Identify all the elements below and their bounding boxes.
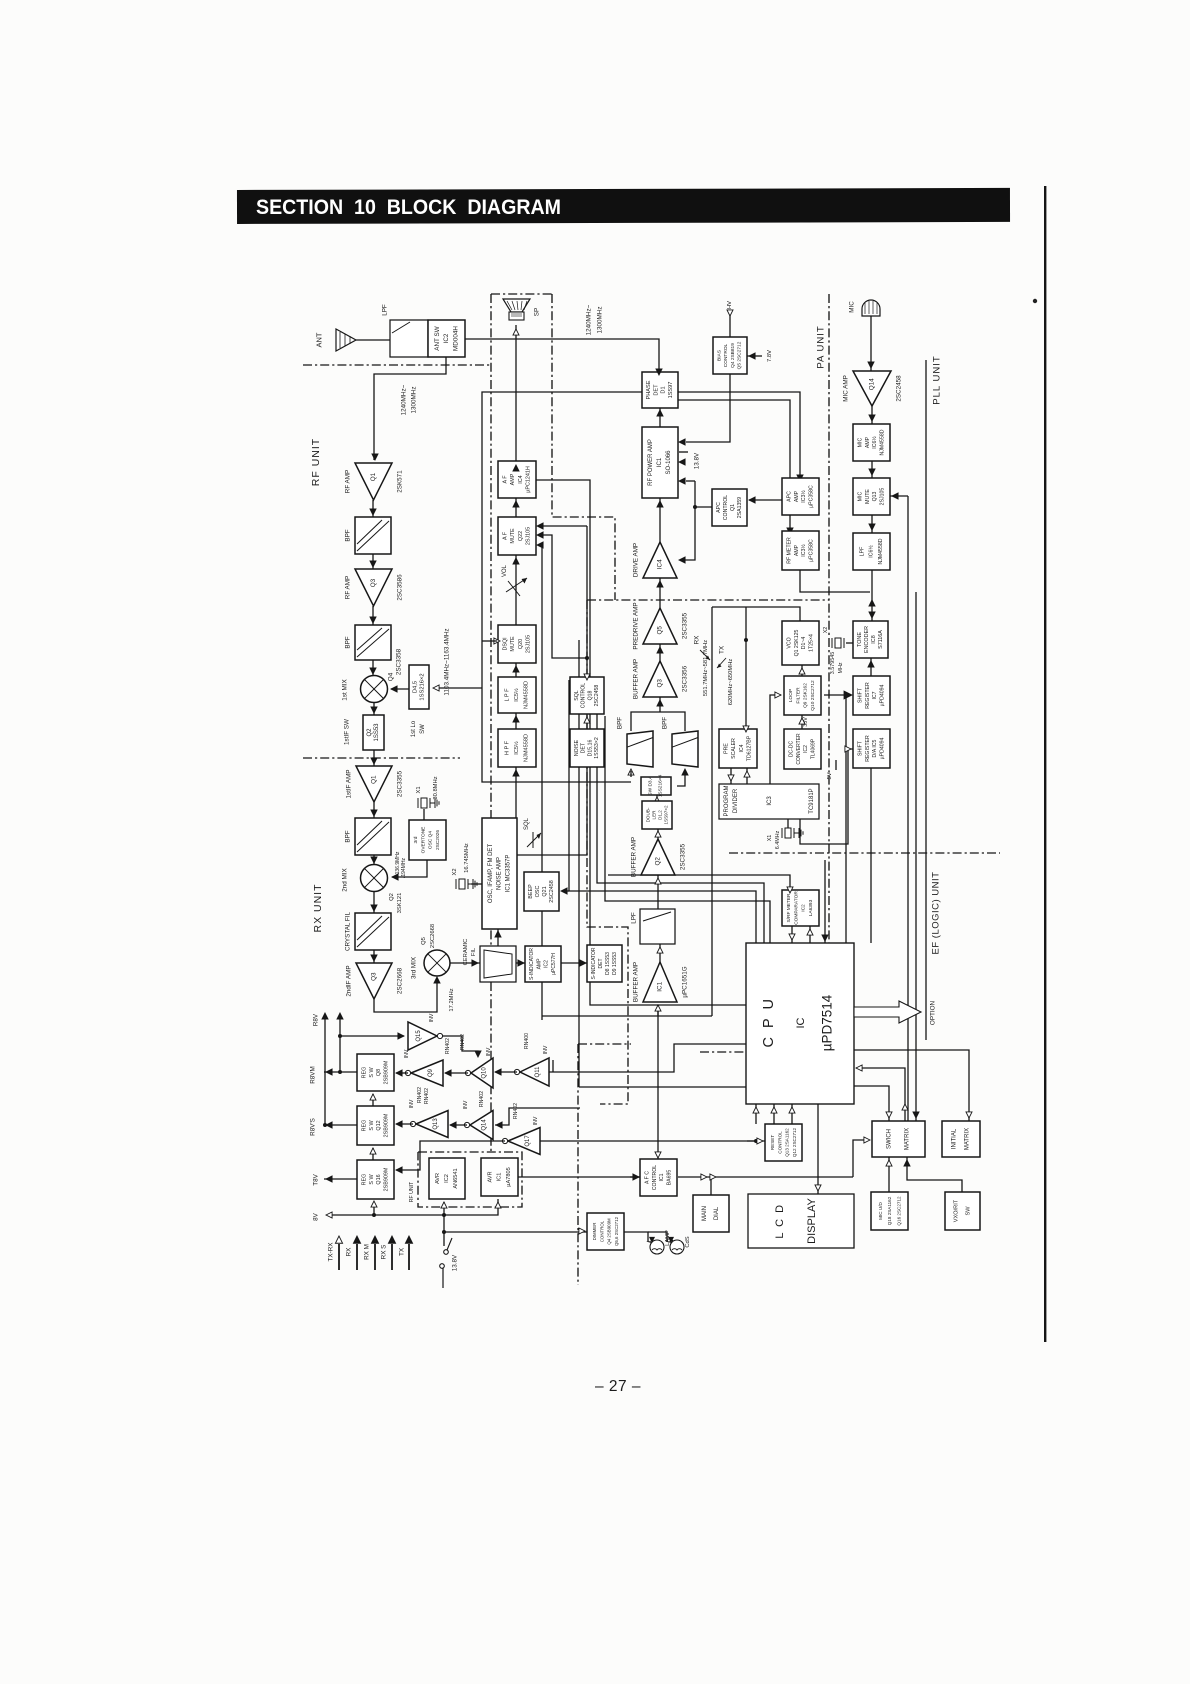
- svg-text:SW: SW: [420, 724, 426, 734]
- svg-text:Q13: Q13: [433, 1118, 439, 1130]
- svg-text:MUTE: MUTE: [510, 636, 516, 652]
- arrow LPF in: [513, 716, 519, 722]
- svg-text:H P F: H P F: [505, 740, 511, 755]
- svg-text:SWICH: SWICH: [887, 1129, 893, 1149]
- arrow into xtal fil: [371, 905, 377, 911]
- svg-text:BPF: BPF: [617, 717, 624, 729]
- svg-text:CONVERTER: CONVERTER: [796, 733, 802, 765]
- regulator AVR IC2 AN6541: [429, 1158, 465, 1199]
- svg-text:SCALER: SCALER: [731, 738, 737, 759]
- svg-text:MUTE: MUTE: [865, 489, 871, 504]
- wire RX LO bus 1103MHz: [482, 392, 642, 782]
- amp APC AMP IC3 uPC358C: [782, 478, 819, 515]
- amp S-INDICATOR AMP IC2 uPC577H: [525, 946, 561, 982]
- filter BPF tx a: [627, 731, 653, 767]
- TX RX boundary horizontal: [587, 599, 829, 601]
- arrow into doubler: [655, 831, 661, 837]
- svg-text:C P U: C P U: [761, 997, 777, 1048]
- arrow T8V: [326, 1176, 332, 1182]
- arrow R8V b: [337, 1013, 343, 1019]
- arrow reg q16 supply: [371, 1201, 377, 1207]
- svg-text:IC8: IC8: [871, 635, 877, 643]
- amp MIC AMP IC6 NJM4558D: [853, 424, 890, 461]
- wire buffer1 feed stub: [657, 1005, 659, 1016]
- wire HV to bias: [729, 312, 731, 337]
- svg-text:µPC1651G: µPC1651G: [682, 966, 689, 997]
- svg-text:Q9 2SK162: Q9 2SK162: [803, 683, 809, 708]
- arrow HPF in: [513, 770, 519, 776]
- arrow into PA: [657, 501, 663, 507]
- wire q9 out: [396, 1072, 408, 1074]
- wire doubler to sw: [656, 795, 658, 801]
- svg-text:BIAS: BIAS: [716, 350, 722, 361]
- svg-text:µPC1241H: µPC1241H: [525, 466, 531, 493]
- svg-text:Q1: Q1: [371, 775, 378, 784]
- wire xtal fil to Q3if: [373, 950, 375, 963]
- wire dimmer feed: [444, 1231, 587, 1233]
- svg-text:D9 1SS53: D9 1SS53: [612, 952, 618, 975]
- svg-text:AVR: AVR: [487, 1171, 493, 1182]
- arrow shift to tone: [868, 661, 874, 667]
- wire AF line riser: [535, 480, 746, 1005]
- wire dimmer to cds: [648, 1232, 667, 1242]
- svg-text:Q22: Q22: [518, 531, 524, 541]
- svg-text:IC6½: IC6½: [868, 545, 875, 558]
- lamp LAMP: [650, 1240, 664, 1254]
- power arrow RX: [356, 1244, 358, 1270]
- wire sw to bpfb: [677, 771, 685, 786]
- wire apc to PA: [686, 480, 695, 482]
- wire Q3if to 3rd mix: [374, 978, 437, 1012]
- wire inverter bus y1072: [549, 1044, 746, 1072]
- arrow into predrive: [657, 647, 663, 653]
- inverter Q13: [416, 1111, 448, 1138]
- svg-text:Q15: Q15: [416, 1030, 422, 1042]
- wire VCO bus vertical: [711, 607, 713, 1016]
- svg-text:INV: INV: [543, 1045, 549, 1054]
- wire comp to cpu a: [791, 926, 793, 943]
- arrow apc into drive: [679, 557, 685, 563]
- svg-text:X1: X1: [416, 786, 422, 793]
- wire q11 out: [495, 1071, 517, 1073]
- junction 13.8V b: [442, 1230, 446, 1234]
- wire bus to DSQL: [482, 640, 497, 642]
- svg-text:MAIN: MAIN: [702, 1206, 708, 1221]
- svg-text:TL4069P: TL4069P: [811, 738, 817, 759]
- wire comp to cpu b: [809, 926, 811, 943]
- filter BPF tx b: [672, 731, 698, 767]
- svg-text:13.8V: 13.8V: [452, 1254, 459, 1271]
- svg-text:MATRIX: MATRIX: [904, 1128, 910, 1150]
- svg-text:BUFFER AMP: BUFFER AMP: [631, 837, 638, 877]
- svg-text:AMP: AMP: [536, 958, 542, 970]
- svg-text:2SJ105: 2SJ105: [525, 635, 531, 653]
- svg-text:OSC Q4: OSC Q4: [428, 831, 434, 849]
- amp RF POWER AMP IC1 SO-1066: [642, 427, 678, 498]
- svg-text:Q14: Q14: [869, 378, 876, 390]
- wire reset in: [747, 1140, 765, 1142]
- svg-text:1103.4MHz~1163.4MHz: 1103.4MHz~1163.4MHz: [444, 628, 451, 695]
- arrow comp cpu b: [807, 929, 813, 935]
- wire 7.8V to bias: [747, 355, 762, 357]
- wire xtal to tone: [846, 642, 853, 644]
- svg-text:Q10 2SC2712: Q10 2SC2712: [810, 680, 816, 711]
- PA unit boundary: [828, 294, 830, 973]
- svg-text:D/A IC5: D/A IC5: [872, 739, 878, 757]
- wire mic mute to lpf: [871, 515, 873, 533]
- svg-text:RX: RX: [346, 1247, 353, 1257]
- svg-text:MATRIX: MATRIX: [964, 1128, 970, 1150]
- svg-text:2SC2668: 2SC2668: [430, 924, 436, 948]
- arrow into speaker: [513, 329, 519, 335]
- wire CPU top feed c: [578, 640, 580, 1087]
- svg-text:X2: X2: [823, 627, 829, 634]
- svg-text:µPD4094: µPD4094: [880, 685, 886, 707]
- arrow into bpf a: [628, 769, 634, 775]
- arrow AF amp out: [513, 465, 519, 471]
- wire x1 to divider: [787, 819, 789, 828]
- wire buffer1 to lpf: [659, 944, 661, 962]
- wire q15 in: [340, 1035, 404, 1037]
- svg-text:Q18: Q18: [587, 690, 593, 700]
- arrow D45 into mixer: [391, 686, 397, 692]
- control RESET CONTROL Q13 Q12: [765, 1124, 802, 1161]
- svg-text:SW: SW: [965, 1206, 971, 1216]
- svg-text:TONE: TONE: [857, 632, 863, 647]
- svg-text:BA695: BA695: [667, 1170, 673, 1186]
- svg-text:SQL: SQL: [524, 817, 530, 830]
- svg-text:EF (LOGIC) UNIT: EF (LOGIC) UNIT: [931, 872, 942, 955]
- filter CRYSTAL FIL: [355, 913, 391, 950]
- svg-text:RN402: RN402: [445, 1038, 451, 1054]
- wire merge up: [659, 697, 661, 712]
- svg-text:IC2: IC2: [803, 745, 809, 753]
- wire cpu to swich matrix: [854, 1086, 889, 1121]
- svg-text:TX-RX: TX-RX: [328, 1242, 335, 1262]
- wire 3rd mix to ceramic: [450, 962, 480, 964]
- svg-text:1SS53×2: 1SS53×2: [594, 737, 600, 759]
- svg-text:1stIF AMP: 1stIF AMP: [346, 769, 353, 798]
- svg-text:Q9: Q9: [428, 1068, 434, 1077]
- wire mic amp to ic6: [871, 406, 873, 424]
- arrow into shift reg: [844, 691, 852, 699]
- arrow into swich left: [864, 1137, 870, 1143]
- amp RF AMP Q1 2SK571: [355, 463, 392, 500]
- svg-text:BUFFER AMP: BUFFER AMP: [633, 659, 640, 699]
- junction sql riser: [585, 656, 589, 660]
- crystal X1 6.4MHz: [785, 828, 791, 838]
- wire mix to 1stIF SW: [373, 703, 375, 715]
- svg-text:CONTROL: CONTROL: [723, 495, 729, 520]
- svg-text:MD004H: MD004H: [452, 326, 459, 351]
- arrow into lamp: [650, 1237, 655, 1242]
- svg-text:IC: IC: [795, 1017, 807, 1028]
- svg-text:RF METER: RF METER: [786, 537, 792, 564]
- svg-text:IC1: IC1: [497, 1173, 503, 1182]
- wire osc to 2nd mix: [392, 876, 409, 878]
- wire X1 to overtone osc: [423, 809, 425, 820]
- arrow dial bus: [701, 1174, 707, 1180]
- wire pll right bus 3: [925, 360, 927, 1040]
- svg-text:Q4 2SB909M: Q4 2SB909M: [607, 1218, 612, 1245]
- svg-text:D8 1SS53: D8 1SS53: [605, 952, 611, 975]
- wire q11 tail: [552, 1060, 554, 1072]
- svg-text:IC2: IC2: [443, 333, 450, 343]
- diode switch D4 D5 1SS216x2: [409, 665, 429, 709]
- microphone MIC: [862, 300, 880, 316]
- svg-text:SP: SP: [534, 308, 541, 316]
- inverter Q9: [411, 1060, 443, 1086]
- crystal X1 30.8MHz: [421, 798, 427, 808]
- filter BPF 3: [355, 818, 391, 855]
- power arrow RX M: [374, 1244, 376, 1270]
- svg-text:IC7: IC7: [872, 691, 878, 699]
- wire afc left stub: [630, 1176, 640, 1178]
- arrow into mic lpf: [869, 524, 875, 530]
- svg-text:PA UNIT: PA UNIT: [816, 325, 827, 368]
- amp 1stIF AMP Q1 2SC3355: [356, 766, 392, 802]
- svg-text:16.745MHz: 16.745MHz: [464, 843, 470, 873]
- svg-text:RN402: RN402: [424, 1088, 430, 1104]
- wire afc riser: [657, 1005, 659, 1159]
- wire predrive to drive: [659, 578, 661, 608]
- arrow into Q1: [372, 454, 378, 460]
- arrow into MC3357P: [495, 931, 501, 937]
- wire lpf to tone enc: [871, 570, 873, 621]
- arrow into initial matrix: [966, 1112, 972, 1118]
- svg-text:PROGRAM: PROGRAM: [724, 785, 730, 816]
- wire buffer3 to predrive: [659, 644, 661, 661]
- svg-text:INV: INV: [404, 1049, 410, 1058]
- wire reg q8 out: [324, 1071, 357, 1073]
- wire q16 to q12: [372, 1148, 374, 1160]
- svg-text:FIL: FIL: [471, 947, 477, 956]
- svg-text:REGISTER: REGISTER: [865, 682, 871, 709]
- svg-text:2SA1359: 2SA1359: [737, 497, 743, 518]
- arrow q12 to q8: [370, 1094, 376, 1100]
- switch ANT SW IC2 MD004H: [428, 320, 465, 357]
- svg-text:D15,16: D15,16: [587, 740, 593, 757]
- svg-text:REGISTER: REGISTER: [865, 735, 871, 762]
- arrow comp top: [787, 887, 793, 893]
- register SHIFT REGISTER D/A IC5: [853, 729, 890, 768]
- wire CPU feed d: [605, 716, 770, 943]
- oscillator OVERTONE OSC Q4 2SC2026: [409, 820, 446, 860]
- svg-text:8V: 8V: [313, 1212, 320, 1221]
- svg-text:SECTION 10 BLOCK DIAGRAM: SECTION 10 BLOCK DIAGRAM: [256, 196, 561, 219]
- mixer 1st MIX Q4 2SC3358: [361, 676, 388, 703]
- svg-text:LPF: LPF: [859, 547, 865, 557]
- svg-text:RX S: RX S: [381, 1245, 388, 1260]
- svg-text:COMPARATOR: COMPARATOR: [793, 891, 799, 925]
- EF unit boundary horizontal: [578, 1043, 631, 1045]
- svg-text:2SC3586: 2SC3586: [397, 574, 404, 601]
- arrow into buffer2: [655, 878, 661, 884]
- wire BPF2 to 1st mix: [372, 660, 374, 676]
- svg-text:S W: S W: [369, 1120, 375, 1131]
- svg-text:MIC: MIC: [857, 491, 863, 501]
- svg-text:REG: REG: [361, 1174, 367, 1186]
- wire q17 out: [396, 1141, 505, 1170]
- wire VCO top link: [712, 607, 800, 621]
- svg-text:1300MHz: 1300MHz: [597, 307, 604, 334]
- svg-text:IC6½: IC6½: [871, 436, 878, 449]
- arrow into ceramic fil: [472, 960, 478, 966]
- potentiometer VOL: [506, 578, 527, 592]
- oscillator BEEP OSC Q21 2SC2458: [524, 872, 559, 911]
- arrow 13.8V c: [679, 478, 685, 484]
- svg-text:1SS216×2: 1SS216×2: [419, 673, 425, 700]
- mute MIC MUTE Q13 2SJ105: [853, 478, 890, 515]
- svg-text:2SJ105: 2SJ105: [880, 488, 886, 506]
- arrow q9 to reg: [396, 1070, 402, 1076]
- svg-text:APC: APC: [786, 491, 792, 502]
- svg-text:S W: S W: [369, 1174, 375, 1185]
- switch 1st IF SW Q2 1SS53: [363, 715, 384, 750]
- wire mic to mic amp: [870, 316, 872, 371]
- wire D45 to mixer: [391, 688, 409, 690]
- arrow into 3rd mix: [434, 977, 440, 983]
- arrow TX tap pointer: [717, 658, 726, 668]
- wire reset c: [791, 1104, 793, 1124]
- svg-text:SHIFT: SHIFT: [857, 740, 863, 756]
- arrow noise det up: [584, 717, 590, 723]
- svg-text:1stIF SW: 1stIF SW: [344, 719, 351, 745]
- wire X2 to IC1: [471, 883, 482, 885]
- svg-text:Q18 2SA1162: Q18 2SA1162: [887, 1196, 892, 1225]
- svg-text:IC2: IC2: [544, 960, 550, 968]
- svg-text:µPD4094: µPD4094: [880, 738, 886, 760]
- svg-text:DRIVE AMP: DRIVE AMP: [633, 543, 640, 577]
- regulator REG S W Q12 2SB909M: [357, 1106, 394, 1145]
- dial MAIN DIAL: [693, 1195, 729, 1232]
- svg-text:CONTROL: CONTROL: [581, 683, 587, 708]
- svg-text:2SC2026: 2SC2026: [435, 830, 441, 850]
- svg-text:IC1: IC1: [659, 1173, 665, 1181]
- svg-text:Q16: Q16: [376, 1174, 382, 1184]
- svg-text:AN6541: AN6541: [453, 1168, 459, 1188]
- arrow pa to pd: [657, 410, 663, 416]
- arrow into buffer1: [655, 1005, 661, 1011]
- junction q15 feed: [338, 1034, 342, 1038]
- svg-text:Q1 2SK125: Q1 2SK125: [794, 629, 800, 656]
- junction apc: [693, 505, 697, 509]
- svg-text:LOOP: LOOP: [788, 689, 794, 702]
- junction vco bus: [744, 638, 748, 642]
- wire 8V rail: [328, 1214, 444, 1216]
- RF unit top boundary: [303, 364, 491, 366]
- arrowhead TX: [405, 1236, 412, 1243]
- svg-text:BPF: BPF: [345, 529, 352, 541]
- arrow q15 to q10: [475, 1051, 481, 1057]
- arrow mic mute ctl: [892, 493, 898, 499]
- arrow into phase det: [656, 369, 662, 375]
- ink speck: [1033, 299, 1037, 303]
- detector NOISE DET D15 D16: [570, 729, 604, 767]
- arrow into Q3 buffer: [657, 700, 663, 706]
- svg-text:DOUB-: DOUB-: [646, 807, 651, 822]
- arrow into rf meter: [787, 528, 793, 534]
- svg-text:VCO: VCO: [786, 637, 792, 648]
- prescaler PRE SCALER IC4 TD6127BP: [719, 729, 757, 768]
- svg-text:2SC2458: 2SC2458: [896, 375, 903, 402]
- wire sw to bpfa: [630, 771, 632, 777]
- wire dimmer to lamp: [624, 1232, 648, 1242]
- svg-text:IC4: IC4: [657, 559, 664, 569]
- svg-text:S7116A: S7116A: [878, 630, 884, 649]
- wire swich to cpu: [856, 1068, 905, 1121]
- arrow into beep osc: [561, 888, 567, 894]
- matrix SWICH MATRIX: [872, 1121, 925, 1157]
- svg-text:3rd: 3rd: [413, 836, 419, 843]
- svg-text:1SS216×4: 1SS216×4: [658, 774, 664, 797]
- connector OPTION arrow: [854, 1001, 921, 1023]
- svg-text:Q13 2SA1162: Q13 2SA1162: [785, 1128, 790, 1157]
- svg-text:Q11: Q11: [535, 1066, 541, 1078]
- switch MIC U/D Q18 Q16: [871, 1192, 908, 1230]
- svg-text:FILTER: FILTER: [795, 687, 801, 704]
- arrow comp cpu a: [789, 934, 795, 940]
- wire lpf to buffer2: [657, 875, 659, 909]
- amp BUFFER AMP IC1 uPC1651G: [643, 962, 677, 1002]
- arrowhead RX S: [388, 1236, 395, 1243]
- svg-text:R8V'S: R8V'S: [310, 1118, 317, 1136]
- arrow osc into 2nd mix: [392, 874, 398, 880]
- svg-text:Q21: Q21: [542, 886, 548, 896]
- svg-text:RX M: RX M: [364, 1244, 371, 1260]
- svg-text:NJM4558D: NJM4558D: [524, 681, 530, 709]
- wire reg q12 out: [324, 1124, 357, 1126]
- switch VXO RIT SW: [945, 1192, 980, 1230]
- arrow into sind amp: [518, 960, 524, 966]
- arrow into bpf b: [682, 769, 688, 775]
- IC CPU uPD7514: [746, 943, 854, 1104]
- amp DRIVE AMP IC4: [643, 542, 677, 578]
- svg-text:µPD7514: µPD7514: [820, 994, 835, 1051]
- svg-text:2SB909M: 2SB909M: [384, 1060, 390, 1084]
- svg-text:1st Lo: 1st Lo: [411, 720, 417, 737]
- svg-text:2SC3355: 2SC3355: [682, 612, 689, 639]
- 13.8V supply dashes: [678, 451, 688, 453]
- arrow into BPF2: [370, 617, 376, 623]
- svg-text:2SB909M: 2SB909M: [384, 1113, 390, 1137]
- control AFC CONTROL IC1 BA695: [640, 1159, 677, 1196]
- svg-text:DIVIDER: DIVIDER: [733, 788, 739, 813]
- svg-text:NOISE AMP: NOISE AMP: [497, 857, 503, 890]
- inverter Q15: [408, 1022, 437, 1050]
- svg-text:3rd MIX: 3rd MIX: [411, 956, 418, 979]
- svg-text:CONTROL: CONTROL: [777, 1131, 782, 1154]
- svg-text:TD6127BP: TD6127BP: [746, 735, 752, 761]
- svg-text:AMP: AMP: [794, 490, 800, 502]
- section title bar: [237, 188, 1010, 224]
- svg-text:TC9181P: TC9181P: [809, 788, 815, 813]
- wire LPF HPF: [515, 713, 517, 729]
- svg-text:Q14: Q14: [481, 1119, 487, 1131]
- svg-text:D1: D1: [661, 386, 667, 393]
- encoder TONE ENCODER IC8 S7116A: [853, 621, 888, 658]
- wire ceramic to IC1 det: [497, 929, 499, 946]
- filter BPF 2: [355, 625, 391, 660]
- arrow into cds: [669, 1237, 674, 1242]
- arrow mute ctl 2: [537, 532, 543, 538]
- arrow into 1stIF amp: [371, 758, 377, 764]
- svg-text:2nd MIX: 2nd MIX: [342, 867, 349, 891]
- svg-text:RN402: RN402: [417, 1087, 423, 1103]
- svg-text:µPC577H: µPC577H: [551, 953, 557, 975]
- svg-text:IC5½: IC5½: [513, 741, 520, 755]
- wire BPF3 to 2nd mix: [373, 855, 375, 864]
